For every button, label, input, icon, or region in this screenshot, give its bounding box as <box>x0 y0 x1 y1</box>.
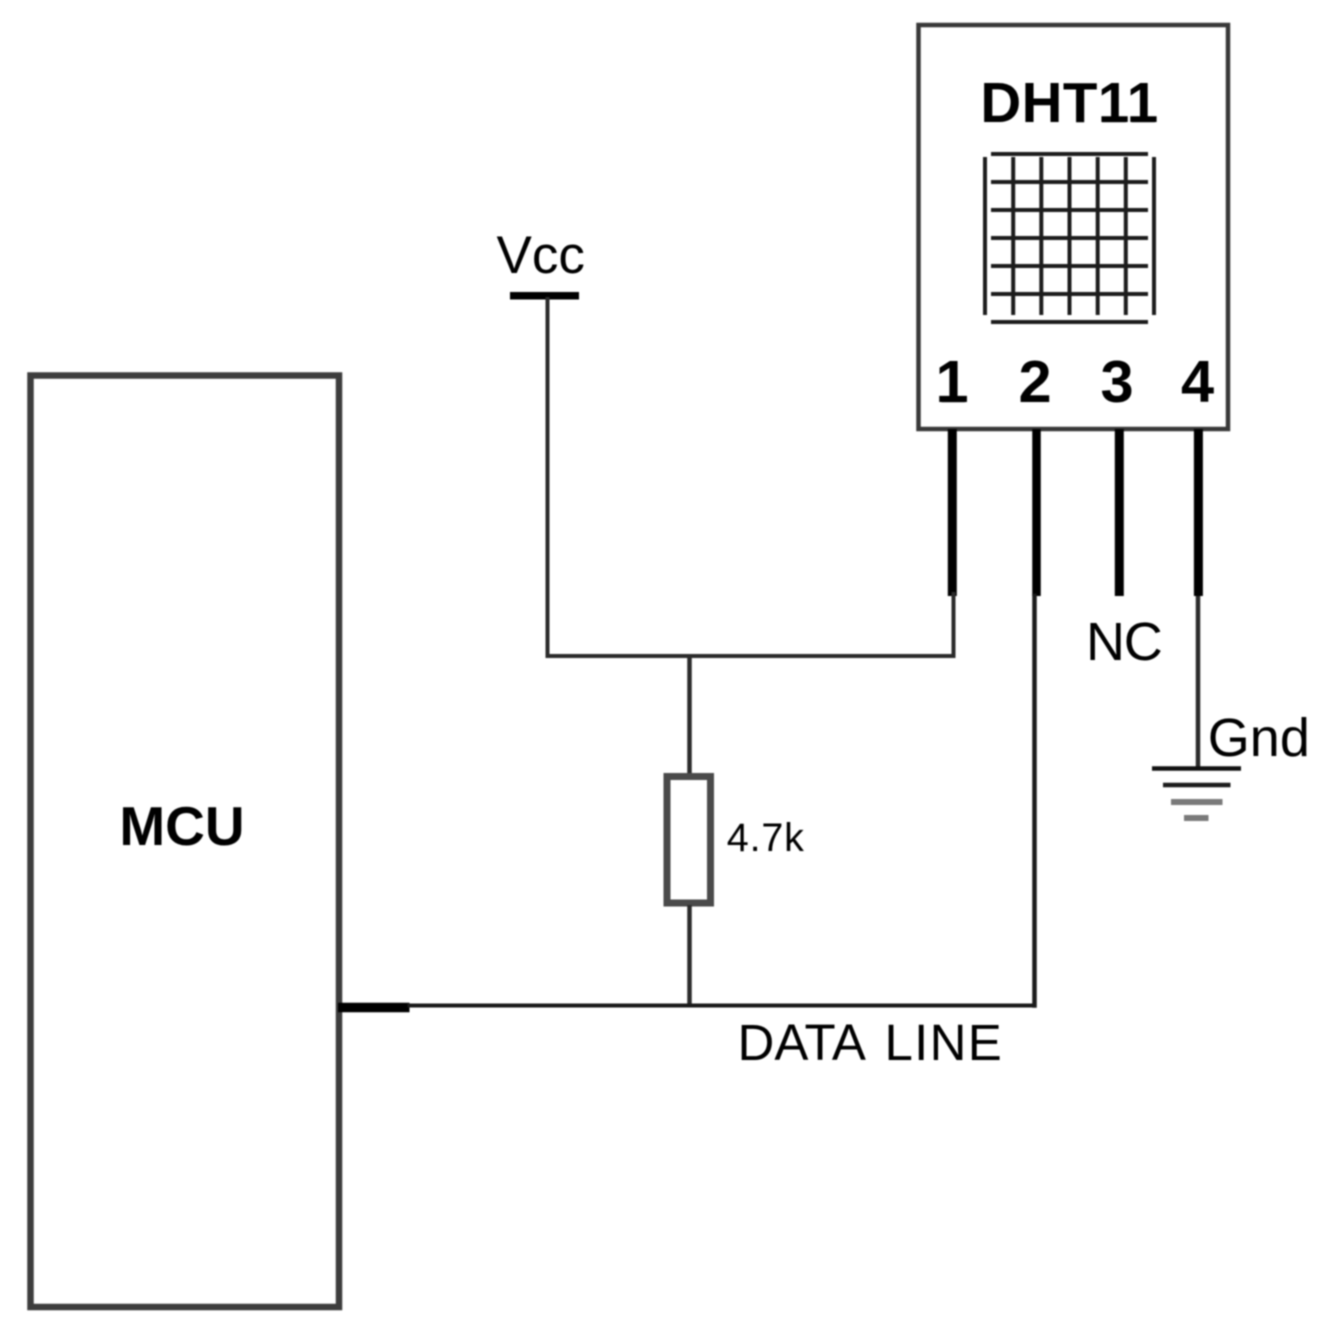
MCU data pin stub <box>338 1003 410 1013</box>
resistor R1 4.7k body <box>667 777 711 904</box>
wire Vcc vertical <box>546 299 550 656</box>
svg-text:4.7k: 4.7k <box>727 816 805 860</box>
wire Vcc bus horizontal to pin 1 <box>548 654 954 658</box>
svg-text:Gnd: Gnd <box>1208 708 1310 768</box>
wire pin 1 drop to bus <box>952 594 956 656</box>
DHT11 U2 box <box>919 25 1229 429</box>
ground symbol <box>1152 769 1241 819</box>
pin 4 stub <box>1194 429 1203 596</box>
svg-text:NC: NC <box>1086 612 1162 672</box>
wire pin 4 to ground <box>1196 596 1201 767</box>
pin 3 stub (NC) <box>1115 429 1124 596</box>
svg-text:2: 2 <box>1018 348 1051 415</box>
DHT11 sensor grid icon <box>985 154 1154 322</box>
svg-text:LINE: LINE <box>885 1014 1004 1071</box>
MCU U1 box <box>31 376 340 1308</box>
wire pin 2 drop to data line <box>1032 596 1037 1006</box>
svg-text:DHT11: DHT11 <box>980 71 1158 134</box>
pin 2 stub <box>1032 429 1041 596</box>
svg-text:1: 1 <box>935 348 968 415</box>
svg-text:Vcc: Vcc <box>497 226 585 285</box>
svg-text:MCU: MCU <box>119 795 244 857</box>
svg-text:3: 3 <box>1100 348 1133 415</box>
svg-text:DATA: DATA <box>738 1014 866 1071</box>
wire resistor bottom <box>687 905 692 1006</box>
svg-text:4: 4 <box>1181 348 1214 415</box>
Vcc power bar <box>510 292 579 300</box>
pin 1 stub <box>948 429 957 596</box>
wire data line horizontal <box>410 1004 1035 1008</box>
wire resistor top <box>687 656 692 774</box>
